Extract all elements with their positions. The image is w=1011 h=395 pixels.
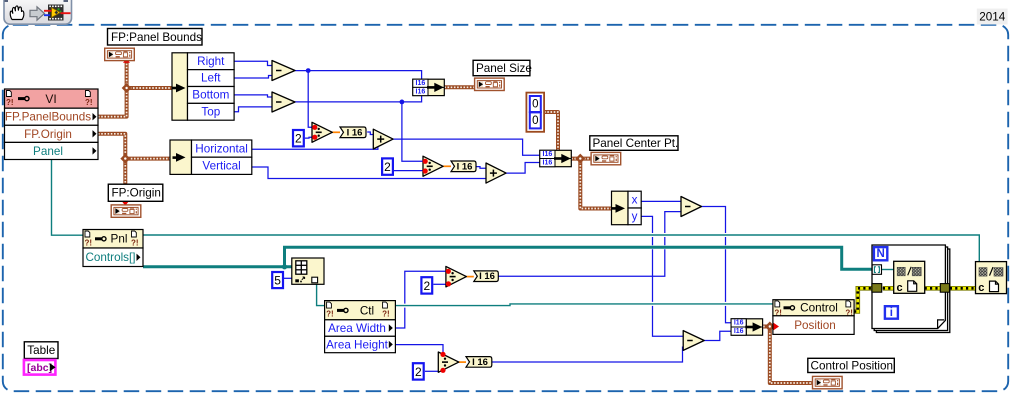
svg-text:FP.Origin: FP.Origin — [24, 128, 72, 141]
svg-text:Vertical: Vertical — [202, 160, 240, 173]
svg-text:Controls[]: Controls[] — [85, 251, 135, 264]
svg-text:Control Position: Control Position — [811, 359, 894, 372]
svg-text:FP.PanelBounds: FP.PanelBounds — [5, 111, 91, 124]
svg-text:Area Height: Area Height — [326, 338, 388, 351]
svg-text:Panel Size: Panel Size — [476, 62, 532, 75]
svg-text:I16: I16 — [543, 159, 553, 166]
svg-text:2014: 2014 — [979, 11, 1006, 24]
svg-text:x: x — [632, 194, 638, 207]
svg-text:Ctl: Ctl — [360, 304, 374, 317]
svg-text:I 16: I 16 — [472, 357, 488, 368]
svg-text:I16: I16 — [543, 151, 553, 158]
svg-text:N: N — [877, 248, 885, 260]
svg-text:I 16: I 16 — [347, 127, 363, 138]
svg-text:VI: VI — [45, 92, 56, 106]
svg-text:y: y — [632, 210, 638, 223]
svg-text:i: i — [890, 307, 893, 319]
svg-text:I16: I16 — [734, 320, 744, 327]
svg-text:0: 0 — [532, 115, 538, 127]
svg-text:Table: Table — [27, 344, 55, 357]
svg-text:I 16: I 16 — [479, 271, 495, 282]
svg-text:Control: Control — [800, 302, 838, 315]
svg-text:2: 2 — [415, 365, 422, 379]
svg-text:2: 2 — [423, 279, 430, 293]
svg-text:Panel Center Pt.: Panel Center Pt. — [593, 137, 679, 150]
svg-text:Right: Right — [197, 55, 225, 68]
svg-text:0: 0 — [532, 99, 538, 111]
svg-text:5: 5 — [274, 274, 281, 288]
svg-text:Bottom: Bottom — [192, 89, 229, 102]
svg-text:FP:Panel Bounds: FP:Panel Bounds — [111, 31, 202, 44]
svg-text:I 16: I 16 — [457, 161, 473, 172]
svg-text:Pnl: Pnl — [111, 233, 128, 246]
svg-text:Horizontal: Horizontal — [195, 142, 248, 155]
svg-text:I16: I16 — [734, 328, 744, 335]
svg-text:2: 2 — [295, 132, 302, 146]
svg-text:Position: Position — [794, 319, 836, 332]
svg-text:[abc]: [abc] — [27, 362, 52, 374]
svg-text:FP:Origin: FP:Origin — [112, 187, 161, 200]
svg-text:2: 2 — [384, 160, 391, 174]
svg-text:I16: I16 — [416, 80, 426, 87]
svg-text:Left: Left — [201, 72, 221, 85]
svg-text:Panel: Panel — [33, 145, 63, 158]
svg-text:Top: Top — [201, 105, 220, 118]
svg-text:I16: I16 — [416, 88, 426, 95]
svg-text:Area Width: Area Width — [328, 322, 386, 335]
